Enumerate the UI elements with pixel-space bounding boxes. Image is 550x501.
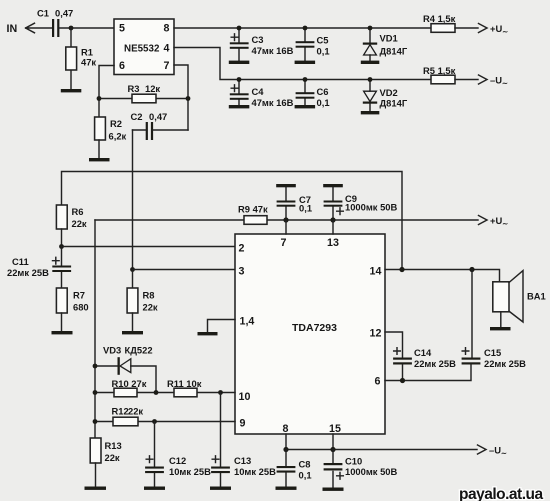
svg-text:IN: IN	[7, 23, 18, 35]
resistor R2 6,2k	[95, 117, 127, 158]
ground under BA1	[490, 327, 511, 330]
svg-text:10: 10	[239, 391, 251, 403]
node C3 on rail	[237, 26, 242, 31]
resistor R3 12k feedback	[99, 83, 188, 103]
node C2/R8/pin3 junction	[130, 267, 135, 272]
svg-text:2: 2	[239, 243, 245, 255]
resistor R4 1,5k	[423, 13, 478, 32]
wire pin4 to lower rail	[174, 48, 431, 80]
resistor R6 22k	[56, 205, 87, 247]
capacitor C5 0,1	[296, 28, 330, 61]
svg-text:C14: C14	[414, 347, 432, 358]
resistor R12 22k	[112, 406, 144, 426]
svg-text:1,4: 1,4	[240, 316, 255, 328]
node C13 on pin10 line	[218, 390, 223, 395]
capacitor C13 10mk 25V	[211, 393, 276, 487]
node pin8/C8 junction	[283, 447, 288, 452]
ground under C10	[323, 488, 344, 491]
svg-text:6: 6	[119, 60, 125, 72]
wire pin2 line	[62, 246, 236, 248]
svg-text:VD3: VD3	[103, 345, 121, 356]
svg-text:R7: R7	[73, 290, 85, 301]
svg-text:VD2: VD2	[380, 87, 398, 98]
svg-text:VD1: VD1	[380, 33, 398, 44]
svg-text:22к: 22к	[105, 452, 120, 463]
capacitor C3 47mk 16V	[230, 28, 294, 61]
node VD3/R10/R11 junction	[154, 390, 159, 395]
arrow +U mid output	[479, 215, 509, 228]
node pin15/C10 junction	[330, 447, 335, 452]
svg-text:6: 6	[375, 376, 381, 388]
svg-text:47к: 47к	[81, 57, 96, 68]
svg-text:22к: 22к	[72, 218, 87, 229]
svg-text:C15: C15	[484, 347, 501, 358]
wire C2 left down to pin3 node	[132, 130, 134, 270]
svg-text:1000мк 50В: 1000мк 50В	[345, 466, 398, 477]
capacitor C2 0,47	[131, 111, 189, 140]
svg-text:C8: C8	[299, 459, 311, 470]
wire feedback line output to R6	[62, 172, 403, 270]
ground under R7	[52, 331, 73, 334]
capacitor C1 0,47	[37, 8, 73, 38]
svg-text:680: 680	[73, 302, 89, 313]
capacitor C6 0,1	[296, 80, 330, 109]
svg-text:R10 27к: R10 27к	[112, 378, 147, 389]
svg-text:C3: C3	[252, 34, 264, 45]
svg-text:R13: R13	[105, 440, 122, 451]
op-amp U1 NE5532	[114, 19, 174, 75]
svg-text:8: 8	[164, 23, 170, 35]
node C6 on rail	[303, 77, 308, 82]
wire C15 vertical to output	[471, 270, 473, 358]
ground under C13	[210, 487, 231, 490]
svg-text:Д814Г: Д814Г	[380, 46, 408, 57]
ground under R8	[122, 331, 143, 334]
node IN input	[7, 23, 53, 35]
capacitor C15 22mk 25V	[462, 347, 526, 369]
svg-text:Д814Г: Д814Г	[380, 98, 408, 109]
svg-text:9: 9	[240, 418, 246, 430]
svg-text:47мк 16В: 47мк 16В	[252, 97, 294, 108]
svg-text:R12: R12	[112, 406, 129, 417]
resistor R13 22k	[90, 438, 122, 487]
node R12/C12 junction	[152, 419, 157, 424]
svg-text:7: 7	[281, 237, 287, 249]
node VD2 on rail	[368, 77, 373, 82]
ground under R1	[61, 89, 82, 92]
resistor R7 680	[56, 288, 88, 331]
diode VD3 KD522	[95, 345, 156, 393]
wire standby network vertical	[94, 220, 96, 438]
svg-text:C6: C6	[317, 86, 329, 97]
capacitor C10 1000mk 50V	[324, 450, 398, 488]
arrow -U top output	[479, 75, 508, 88]
wire pin6 left down to R3 left	[99, 66, 114, 118]
svg-text:R3: R3	[128, 83, 140, 94]
svg-text:22к: 22к	[143, 302, 158, 313]
svg-text:10мк 25В: 10мк 25В	[234, 466, 276, 477]
wire pin15 stub	[332, 434, 334, 450]
svg-text:1000мк 50В: 1000мк 50В	[345, 202, 398, 213]
svg-text:6,2к: 6,2к	[109, 131, 127, 142]
svg-text:C10: C10	[345, 456, 362, 467]
resistor R9 47k	[238, 204, 268, 225]
svg-text:C12: C12	[169, 455, 186, 466]
wire pin14 output line	[385, 270, 500, 282]
speaker BA1	[493, 271, 546, 327]
wire +U mid rail	[95, 219, 478, 221]
capacitor C4 47mk 16V	[230, 80, 294, 109]
arrow +U top output	[479, 23, 509, 36]
svg-text:C4: C4	[252, 86, 265, 97]
svg-text:12к: 12к	[145, 83, 160, 94]
node R3 left junction	[97, 96, 102, 101]
svg-text:10мк 25В: 10мк 25В	[169, 466, 211, 477]
ground under C3	[229, 61, 250, 64]
svg-text:22к: 22к	[128, 406, 143, 417]
svg-text:BA1: BA1	[527, 291, 546, 302]
node R10 on standby vertical	[93, 390, 98, 395]
resistor R8 22k	[127, 270, 158, 332]
svg-text:12: 12	[370, 328, 382, 340]
svg-text:14: 14	[370, 266, 382, 278]
resistor R5 1,5k	[423, 65, 478, 84]
ground under R2	[89, 158, 110, 161]
svg-text:C13: C13	[234, 455, 251, 466]
svg-text:5: 5	[119, 23, 125, 35]
capacitor C7 0,1	[277, 187, 312, 220]
wire pin8 rail to R4	[174, 27, 431, 29]
ground under C5	[295, 61, 316, 64]
node C5 on rail	[303, 26, 308, 31]
ground under C8	[276, 487, 297, 490]
svg-text:R2: R2	[110, 118, 122, 129]
svg-text:R9 47к: R9 47к	[238, 204, 268, 215]
node output/feedback junction	[399, 267, 404, 272]
wire pin7 down to R3 right	[174, 65, 188, 130]
svg-text:22мк 25В: 22мк 25В	[414, 358, 456, 369]
node junction C1/R1	[69, 26, 74, 31]
wire -U bottom line	[286, 449, 477, 451]
node C14 on pin6 line	[400, 378, 405, 383]
svg-text:0,1: 0,1	[317, 46, 330, 57]
zener diode VD1 D814G	[363, 28, 408, 61]
ground under C4	[229, 105, 250, 108]
svg-text:0,47: 0,47	[55, 8, 73, 19]
wire pin8 stub	[285, 434, 287, 450]
wire pin10 line	[95, 392, 235, 394]
capacitor C8 0,1	[277, 450, 312, 487]
svg-text:22мк 25В: 22мк 25В	[7, 267, 49, 278]
svg-text:7: 7	[164, 60, 170, 72]
node R3 right junction	[186, 96, 191, 101]
svg-text:22мк 25В: 22мк 25В	[484, 358, 526, 369]
ground under VD1	[361, 61, 380, 64]
svg-text:payalo.at.ua: payalo.at.ua	[459, 486, 543, 501]
node C9 on +U rail	[330, 217, 335, 222]
ground under VD2	[361, 111, 380, 114]
svg-text:C1: C1	[37, 8, 49, 19]
arrow -U bottom output	[478, 445, 507, 458]
svg-text:8: 8	[283, 423, 289, 435]
wire pin1,4 to ground	[208, 320, 236, 333]
wire pin12 to C14	[385, 332, 403, 358]
svg-text:R11 10к: R11 10к	[167, 378, 202, 389]
zener diode VD2 D814G	[363, 80, 408, 112]
resistor R10 27k	[112, 378, 147, 397]
node R6/C11/pin2 junction	[59, 244, 64, 249]
wire pin9 line	[95, 421, 235, 423]
ground under R13	[85, 487, 107, 490]
node C7 on +U rail	[283, 217, 288, 222]
capacitor C11 22mk 25V	[7, 247, 71, 289]
svg-text:R6: R6	[72, 206, 84, 217]
resistor R1 47k	[66, 28, 97, 89]
svg-text:4: 4	[164, 43, 170, 55]
capacitor C12 10mk 25V	[145, 422, 211, 487]
ground under C6	[295, 105, 316, 108]
svg-text:C11: C11	[12, 256, 29, 267]
node C4 on rail	[237, 77, 242, 82]
svg-text:R4 1,5к: R4 1,5к	[423, 13, 456, 24]
svg-text:R8: R8	[143, 290, 155, 301]
ground above C9	[323, 184, 343, 187]
svg-text:0,1: 0,1	[299, 470, 312, 481]
resistor R11 10k	[167, 378, 202, 397]
capacitor C9 1000mk 50V	[324, 187, 398, 220]
node VD3 on standby vertical	[93, 364, 98, 369]
svg-text:47мк 16В: 47мк 16В	[252, 45, 294, 56]
svg-text:C2: C2	[131, 111, 143, 122]
node output/C15 junction	[469, 267, 474, 272]
capacitor C14 22mk 25V	[393, 347, 456, 381]
wire pin6 line	[385, 365, 471, 381]
node R12 on standby vertical	[93, 419, 98, 424]
ground at pin1,4	[198, 332, 218, 335]
wire pin7 supply stub	[285, 220, 287, 234]
svg-text:0,47: 0,47	[149, 111, 167, 122]
svg-text:15: 15	[329, 423, 341, 435]
ground under C12	[144, 487, 165, 490]
svg-text:КД522: КД522	[125, 345, 153, 356]
amplifier U2 TDA7293	[235, 234, 385, 435]
wire C1 to pin5 NE5532	[59, 27, 114, 29]
svg-text:TDA7293: TDA7293	[292, 322, 337, 334]
ground above C7	[276, 184, 296, 187]
node VD1 on rail	[368, 26, 373, 31]
svg-text:0,1: 0,1	[317, 97, 330, 108]
wire pin13 supply stub	[332, 220, 334, 234]
svg-text:NE5532: NE5532	[124, 44, 160, 55]
wire pin3 line	[133, 269, 236, 271]
svg-text:13: 13	[327, 237, 339, 249]
svg-text:3: 3	[239, 266, 245, 278]
svg-text:0,1: 0,1	[299, 203, 312, 214]
svg-text:R5 1,5к: R5 1,5к	[423, 65, 456, 76]
svg-text:C5: C5	[317, 35, 329, 46]
